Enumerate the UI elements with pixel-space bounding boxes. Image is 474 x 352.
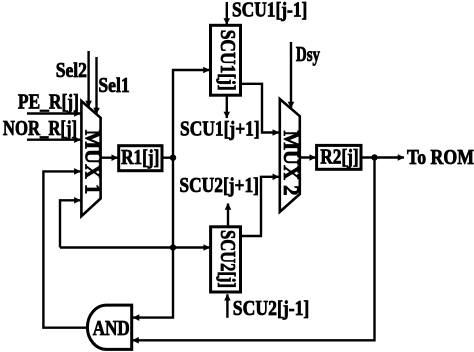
svg-text:SCU1[j]: SCU1[j] (216, 30, 240, 91)
svg-text:NOR_R[j]: NOR_R[j] (3, 116, 77, 140)
node junction R1 output (170, 155, 176, 161)
svg-text:SCU2[j+1]: SCU2[j+1] (179, 173, 259, 197)
register R1 (119, 145, 162, 171)
svg-text:Sel2: Sel2 (56, 58, 87, 82)
wire Dsy select input (290, 42, 292, 108)
wire SCU2 output up arrow (227, 204, 229, 227)
wire junction down to AND input 1 (133, 248, 173, 318)
wire R2 output to ROM (361, 156, 404, 158)
wire SCU2[j-1] input stub (226, 294, 228, 318)
svg-text:MUX 2: MUX 2 (279, 131, 304, 196)
svg-text:PE_R[j]: PE_R[j] (18, 90, 79, 114)
register R2 (317, 145, 361, 170)
svg-text:MUX 1: MUX 1 (81, 130, 106, 195)
svg-text:SCU1[j-1]: SCU1[j-1] (232, 0, 307, 21)
wire vertical R1 net down (172, 158, 174, 248)
wire Sel2 select input (87, 51, 89, 107)
svg-text:SCU2[j-1]: SCU2[j-1] (233, 296, 309, 320)
node junction net B (170, 244, 176, 250)
svg-text:R1[j]: R1[j] (121, 145, 159, 169)
SCU block U2 (211, 227, 241, 292)
svg-text:SCU2[j]: SCU2[j] (216, 230, 240, 288)
mux M2 (279, 99, 304, 212)
wire net B horizontal to SCU2 input (60, 246, 210, 248)
SCU block U1 (211, 25, 241, 95)
wire MUX1 output to R1 (101, 156, 118, 158)
wire R2 feedback to AND input 2 (133, 158, 375, 341)
svg-text:Dsy: Dsy (296, 42, 320, 66)
wire NOR_R[j] input (27, 138, 80, 140)
gate AND1 (87, 305, 131, 349)
svg-text:To ROM: To ROM (407, 145, 474, 169)
wire SCU1 to MUX2 input 1 (241, 84, 279, 133)
wire AND output feedback to MUX1 input 3 (43, 171, 87, 327)
wire SCU1[j-1] input stub (226, 2, 228, 25)
wire PE_R[j] input (27, 112, 80, 114)
svg-text:Sel1: Sel1 (98, 73, 129, 97)
wire Sel1 select input (95, 57, 97, 114)
svg-text:SCU1[j+1]: SCU1[j+1] (180, 116, 260, 140)
svg-text:AND: AND (93, 316, 130, 340)
wire SCU1 output down arrow (226, 95, 228, 118)
wire SCU2 to MUX2 input 2 (241, 177, 279, 236)
mux M1 (81, 101, 106, 216)
svg-text:R2[j]: R2[j] (320, 145, 358, 169)
node junction R2 output (371, 154, 377, 160)
wire MUX2 output to R2 (300, 156, 316, 158)
wire R1 output to SCU1 input (162, 70, 210, 158)
wire net B up to MUX1 input 4 (60, 200, 80, 247)
